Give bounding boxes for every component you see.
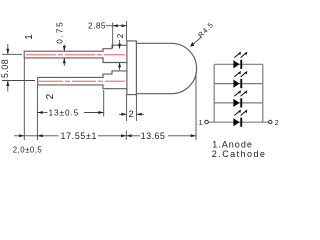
- svg-text:0.75: 0.75: [55, 20, 65, 43]
- svg-text:2: 2: [45, 93, 56, 99]
- svg-text:2: 2: [275, 118, 279, 127]
- svg-text:2: 2: [129, 109, 134, 119]
- svg-text:1: 1: [24, 34, 35, 40]
- svg-text:13±0.5: 13±0.5: [49, 107, 80, 117]
- svg-text:2: 2: [115, 33, 125, 38]
- svg-text:1.Anode: 1.Anode: [212, 139, 253, 149]
- svg-text:13.65: 13.65: [141, 131, 166, 141]
- svg-text:17.55±1: 17.55±1: [61, 131, 98, 141]
- svg-text:5.08: 5.08: [0, 59, 10, 78]
- svg-text:2.Cathode: 2.Cathode: [212, 149, 267, 159]
- svg-text:1: 1: [199, 118, 203, 127]
- svg-text:2,0±0,5: 2,0±0,5: [13, 145, 43, 154]
- svg-text:2.85: 2.85: [88, 20, 106, 30]
